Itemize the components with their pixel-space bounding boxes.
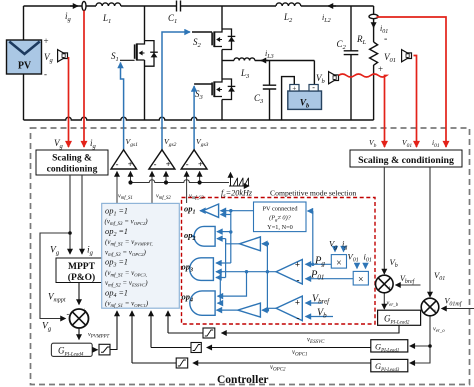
svg-text:L3: L3 xyxy=(240,68,250,80)
svg-text:+: + xyxy=(292,84,296,92)
svg-text:vOPC2: vOPC2 xyxy=(270,364,286,373)
svg-text:Vb: Vb xyxy=(369,138,377,149)
svg-text:S3: S3 xyxy=(195,89,204,101)
svg-text:-: - xyxy=(297,313,300,323)
svg-text:vOPC1: vOPC1 xyxy=(292,349,308,358)
svg-text:vmf_S2: vmf_S2 xyxy=(156,193,171,202)
svg-text:C3: C3 xyxy=(254,93,264,105)
svg-text:PV: PV xyxy=(18,61,32,72)
svg-text:vmf_S1: vmf_S1 xyxy=(118,193,133,202)
svg-text:V01: V01 xyxy=(384,52,396,64)
svg-text:+: + xyxy=(166,159,171,169)
svg-text:-: - xyxy=(154,159,157,169)
svg-text:+: + xyxy=(128,159,133,169)
svg-text:+: + xyxy=(83,307,87,315)
svg-text:Vgs1: Vgs1 xyxy=(126,137,139,148)
svg-text:Vgs3: Vgs3 xyxy=(196,137,209,148)
svg-text:Vg: Vg xyxy=(42,322,52,333)
svg-text:+: + xyxy=(295,260,300,270)
svg-text:Vb: Vb xyxy=(390,257,398,269)
svg-text:+: + xyxy=(295,298,300,308)
svg-text:Vg: Vg xyxy=(54,138,64,150)
svg-text:Scaling &: Scaling & xyxy=(52,154,92,164)
svg-text:vmf_S3: vmf_S3 xyxy=(189,193,204,202)
svg-text:V01: V01 xyxy=(434,270,445,282)
svg-text:conditioning: conditioning xyxy=(47,165,98,175)
svg-text:ig: ig xyxy=(87,246,94,257)
svg-text:-: - xyxy=(384,34,387,45)
svg-text:ig: ig xyxy=(65,11,72,23)
svg-text:Scaling & conditioning: Scaling & conditioning xyxy=(358,155,454,166)
svg-text:ig: ig xyxy=(90,138,97,150)
svg-text:+: + xyxy=(198,159,203,169)
svg-text:L2: L2 xyxy=(283,12,293,24)
svg-text:RL: RL xyxy=(356,34,367,46)
svg-text:iL3: iL3 xyxy=(265,49,274,60)
svg-text:Vbref: Vbref xyxy=(400,274,416,285)
svg-text:-: - xyxy=(186,159,189,169)
svg-text:V01mf: V01mf xyxy=(445,297,463,308)
svg-text:-: - xyxy=(116,159,119,169)
svg-text:vPVMPPT: vPVMPPT xyxy=(88,331,110,340)
svg-text:-: - xyxy=(312,83,315,92)
svg-text:C1: C1 xyxy=(168,13,177,25)
svg-text:×: × xyxy=(358,275,364,286)
svg-text:(P&O): (P&O) xyxy=(68,272,95,283)
svg-text:C2: C2 xyxy=(337,39,347,51)
svg-text:×: × xyxy=(336,258,342,269)
svg-text:iL2: iL2 xyxy=(322,13,331,24)
svg-text:Vg: Vg xyxy=(50,246,60,257)
svg-text:-: - xyxy=(44,69,47,79)
svg-text:Controller: Controller xyxy=(217,374,269,386)
svg-text:Vgs2: Vgs2 xyxy=(164,137,177,148)
svg-text:vESSVC: vESSVC xyxy=(307,337,325,346)
svg-text:+: + xyxy=(44,36,49,46)
svg-text:MPPT: MPPT xyxy=(68,262,96,272)
svg-text:Vb: Vb xyxy=(316,73,326,85)
svg-text:-: - xyxy=(297,275,300,285)
svg-text:+: + xyxy=(378,64,383,74)
svg-text:ver_o: ver_o xyxy=(433,326,445,335)
svg-text:Vmppt: Vmppt xyxy=(48,292,66,304)
svg-text:Vg: Vg xyxy=(44,52,54,64)
svg-text:(Pg≠ 0)?: (Pg≠ 0)? xyxy=(269,215,292,222)
svg-text:ver_b: ver_b xyxy=(387,300,399,309)
svg-text:Y=1, N=0: Y=1, N=0 xyxy=(267,224,293,231)
svg-text:S2: S2 xyxy=(193,37,202,49)
svg-text:PV connected: PV connected xyxy=(262,206,298,213)
svg-text:V01: V01 xyxy=(402,138,412,149)
svg-text:-: - xyxy=(67,310,70,319)
svg-text:i01: i01 xyxy=(432,138,440,149)
svg-text:L1: L1 xyxy=(102,13,111,25)
svg-text:Competitive mode selection: Competitive mode selection xyxy=(270,189,356,198)
svg-text:S1: S1 xyxy=(111,51,119,63)
